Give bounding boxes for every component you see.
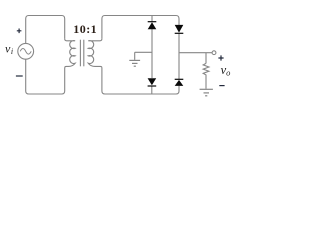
svg-text:vo: vo (221, 63, 231, 78)
svg-text:vi: vi (5, 42, 13, 56)
svg-text:10:1: 10:1 (73, 22, 97, 36)
